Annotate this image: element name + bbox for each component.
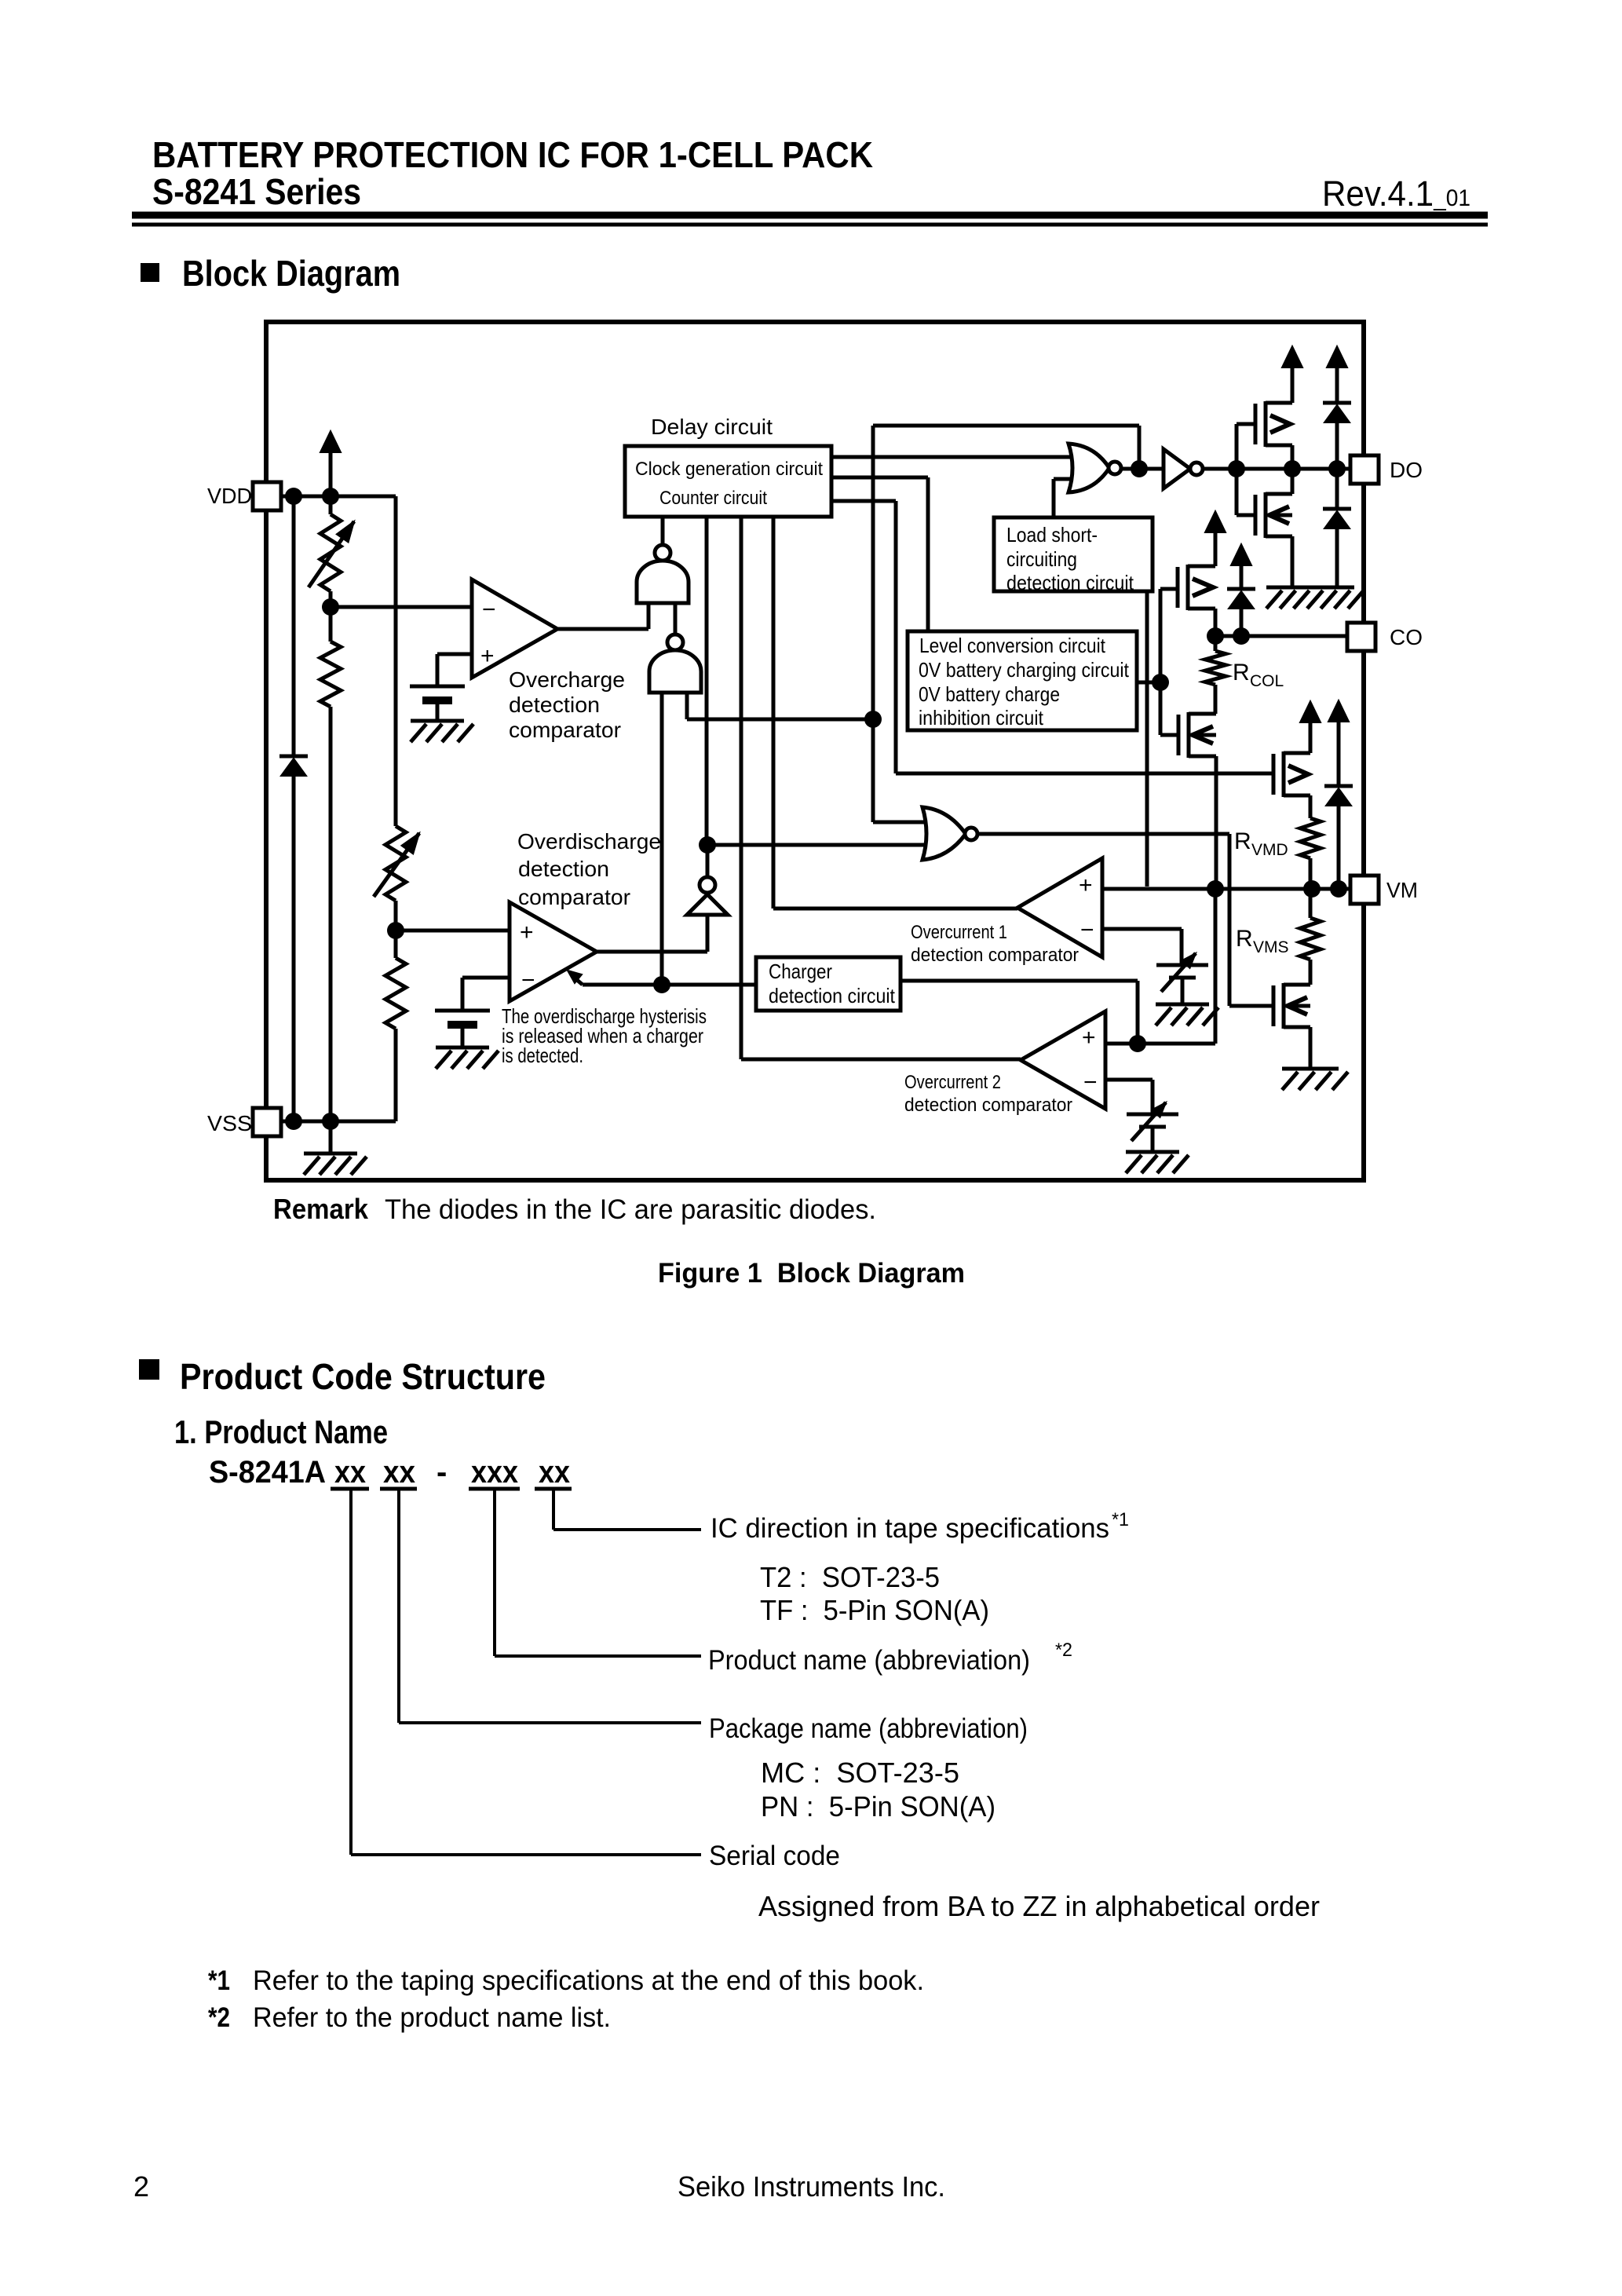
node: VDD junction on diode branch	[285, 488, 302, 505]
node: VSS junction divider branch	[322, 1113, 339, 1130]
svg-text:detection comparator: detection comparator	[911, 945, 1079, 966]
svg-text:−: −	[521, 967, 535, 993]
node: N2/NOR2 feedback junction	[864, 711, 882, 728]
node: OD inverter output junction	[699, 836, 716, 854]
reference cell B1	[410, 686, 465, 721]
svg-text:*2: *2	[1055, 1640, 1072, 1661]
wire: Q6 source to ground	[1309, 1027, 1313, 1069]
wire: gate link to DO transistors	[1237, 424, 1255, 515]
leader line: serial code	[351, 1489, 701, 1855]
diode D3 ground to DO	[1323, 469, 1351, 587]
node: CO node	[1207, 627, 1224, 645]
op-amp U3 overcurrent 1 detection comparator	[1017, 858, 1102, 957]
svg-text:+: +	[1082, 1025, 1096, 1051]
adjustable reference T2	[1127, 1102, 1178, 1152]
svg-text:S-8241 Series: S-8241 Series	[152, 171, 361, 212]
svg-text:xx: xx	[539, 1455, 570, 1490]
svg-text:Assigned from BA to ZZ in alph: Assigned from BA to ZZ in alphabetical o…	[758, 1890, 1320, 1922]
wire: delay output 2 to level conversion	[831, 477, 928, 631]
wire: load short box VM sense	[1145, 591, 1149, 887]
node: divider tap to overcharge comparator	[322, 598, 339, 616]
svg-text:Block Diagram: Block Diagram	[182, 253, 400, 294]
svg-text:VMS: VMS	[1253, 938, 1289, 956]
CO pad	[1347, 623, 1375, 651]
power arrow to VDD above divider	[320, 431, 341, 496]
label: overcharge comparator	[509, 667, 625, 742]
wire: reference to - input	[462, 978, 510, 1011]
label: charger detection	[769, 960, 896, 1007]
wire: NOR2 output to Q6 gate	[975, 834, 1273, 1006]
node: DO diode junction	[1328, 460, 1346, 477]
VDD label	[207, 484, 252, 508]
svg-text:*2: *2	[208, 2002, 230, 2033]
svg-text:R: R	[1234, 828, 1251, 854]
svg-text:VM: VM	[1386, 878, 1418, 902]
label RCOL	[1233, 660, 1284, 690]
svg-text:Product name (abbreviation): Product name (abbreviation)	[708, 1645, 1030, 1676]
svg-text:2: 2	[133, 2170, 149, 2203]
header double rule	[132, 215, 1488, 225]
diode D1 (parasitic, VSS to VDD)	[279, 756, 308, 776]
svg-text:xx: xx	[383, 1455, 415, 1490]
label: counter circuit	[659, 488, 767, 509]
svg-text:0V battery charge: 0V battery charge	[919, 682, 1060, 706]
IC outline border	[266, 322, 1364, 1180]
VM pad	[1350, 876, 1379, 904]
diode D5 VM to VDD with power arrow	[1324, 700, 1353, 889]
wire: counter input from overdischarge inverter	[705, 517, 709, 845]
svg-text:Overcurrent 1: Overcurrent 1	[911, 922, 1007, 943]
inverter V2 (overdischarge path)	[687, 845, 728, 952]
wire: tap to + input	[396, 901, 510, 930]
DO label	[1390, 458, 1423, 482]
product code description texts	[708, 1509, 1320, 1922]
heading: 1. Product Name	[174, 1413, 388, 1450]
svg-text:*1: *1	[208, 1965, 230, 1996]
note: hysteresis text	[502, 1004, 707, 1067]
transistor Q2 DO low-side NMOS	[1255, 492, 1292, 538]
label: overdischarge comparator	[517, 829, 661, 909]
node: DO driver input junction	[1228, 460, 1245, 477]
svg-text:Package name (abbreviation): Package name (abbreviation)	[709, 1713, 1028, 1744]
wire: U3 - input to trimmer	[1102, 929, 1182, 965]
wire: U2 output to inverter	[597, 950, 707, 954]
svg-text:T2 : SOT-23-5: T2 : SOT-23-5	[760, 1561, 940, 1593]
label RVMS	[1236, 926, 1289, 956]
ground under T1	[1156, 1004, 1218, 1026]
node: VM junction at Q4	[1207, 880, 1224, 898]
svg-text:-: -	[437, 1455, 447, 1490]
svg-text:Clock generation circuit: Clock generation circuit	[635, 459, 823, 480]
NOR gate G2	[922, 807, 977, 860]
svg-text:Charger: Charger	[769, 960, 832, 983]
wire: reference to + input	[437, 654, 472, 686]
svg-text:Counter circuit: Counter circuit	[659, 488, 767, 509]
wire: load-short box to NOR1 input	[1054, 479, 1073, 517]
svg-text:MC : SOT-23-5: MC : SOT-23-5	[761, 1757, 959, 1789]
wire: N2 input from NOR feedback	[687, 693, 873, 719]
code underlines	[331, 1487, 572, 1491]
svg-text:Refer to the product name list: Refer to the product name list.	[253, 2002, 611, 2033]
wire: DO gate drive node	[1203, 467, 1350, 471]
wire: Q2 source to ground	[1291, 536, 1295, 587]
NAND gate N2	[649, 634, 701, 693]
svg-text:xx: xx	[334, 1455, 366, 1490]
svg-text:PN : 5-Pin SON(A): PN : 5-Pin SON(A)	[761, 1790, 995, 1823]
ground for DO stage	[1266, 587, 1364, 609]
wire: Q4 source to VM line	[1215, 756, 1218, 889]
ground below VSS rail	[304, 1121, 367, 1175]
power arrow Q3 drain to VDD	[1205, 511, 1226, 566]
svg-text:Serial code: Serial code	[709, 1841, 840, 1871]
leader line: product name	[495, 1489, 701, 1656]
block: load short-circuiting detection circuit	[994, 517, 1153, 591]
node: U4 + junction	[1129, 1035, 1146, 1052]
wire: counter input from overcurrent 1	[773, 517, 1017, 909]
svg-text:Level conversion circuit: Level conversion circuit	[919, 634, 1106, 657]
svg-text:R: R	[1233, 660, 1250, 686]
product code template	[209, 1455, 570, 1490]
transistor Q3 CO high-side PMOS	[1178, 565, 1215, 610]
VDD pad	[253, 482, 281, 510]
svg-text:xxx: xxx	[471, 1455, 518, 1490]
svg-text:inhibition circuit: inhibition circuit	[919, 706, 1044, 729]
svg-text:+: +	[1079, 872, 1093, 898]
node: VDD junction on resistor branch	[322, 488, 339, 505]
svg-text:Load short-: Load short-	[1006, 523, 1098, 547]
svg-text:S-8241A: S-8241A	[209, 1455, 326, 1490]
label: overcurrent 1	[911, 922, 1079, 966]
label: clock generation circuit	[635, 459, 823, 480]
remark text	[273, 1193, 876, 1225]
resistor RVMS	[1300, 889, 1321, 985]
transistor Q4 CO low-side NMOS	[1178, 712, 1216, 758]
wire: Q3 source to CO node	[1214, 609, 1218, 636]
footnotes	[208, 1965, 924, 2033]
svg-text:comparator: comparator	[518, 885, 630, 909]
svg-text:VMD: VMD	[1251, 841, 1288, 859]
svg-text:COL: COL	[1250, 672, 1284, 690]
wire: Q2 drain to DO node	[1291, 469, 1295, 494]
wire: overcharge comparator output	[557, 605, 648, 629]
header title	[152, 134, 873, 212]
svg-text:Refer to the taping specificat: Refer to the taping specifications at th…	[253, 1965, 924, 1996]
section heading: Product Code Structure	[139, 1356, 546, 1397]
node: VSS junction diode branch	[285, 1113, 302, 1130]
svg-text:VSS: VSS	[207, 1111, 252, 1135]
svg-text:Seiko Instruments Inc.: Seiko Instruments Inc.	[678, 2170, 945, 2203]
svg-text:1. Product Name: 1. Product Name	[174, 1413, 388, 1450]
wire: counter input from overcurrent 2	[741, 517, 1021, 1059]
wire: level box output to CO gates	[1137, 589, 1178, 735]
svg-text:IC direction in tape specifica: IC direction in tape specifications	[711, 1513, 1109, 1544]
wire: junction to charger box	[662, 983, 756, 987]
block: level conversion / 0V battery circuits	[908, 631, 1137, 730]
footer	[133, 2170, 945, 2203]
svg-text:detection circuit: detection circuit	[769, 984, 896, 1007]
transistor Q6 NMOS (VM pull-down)	[1273, 983, 1310, 1029]
leader line: IC direction	[553, 1489, 701, 1530]
wire: VDD to second divider	[394, 496, 398, 826]
wire: divider tap to - input	[331, 591, 472, 607]
figure caption	[658, 1258, 965, 1289]
block: Delay circuit (clock generation + counter)	[625, 446, 831, 517]
NAND gate N1 (inverted, output up to delay circuit)	[637, 517, 689, 603]
svg-text:is detected.: is detected.	[502, 1044, 583, 1067]
label: Delay circuit	[651, 415, 773, 439]
label RVMD	[1234, 828, 1288, 859]
ground under B2	[436, 1047, 499, 1069]
inverter V1	[1164, 449, 1203, 488]
resistor RVMD	[1300, 795, 1321, 889]
svg-text:comparator: comparator	[509, 718, 621, 742]
svg-text:DO: DO	[1390, 458, 1423, 482]
svg-text:circuiting: circuiting	[1006, 547, 1077, 571]
diode D2 DO to VDD with power arrow	[1323, 346, 1351, 469]
wire: OD inverter node to NOR2 input	[707, 843, 926, 847]
svg-text:+: +	[480, 643, 495, 669]
diode D4 CO to VDD with power arrow	[1227, 544, 1255, 636]
svg-text:detection: detection	[518, 857, 609, 881]
svg-text:−: −	[482, 597, 496, 623]
section heading: Block Diagram	[141, 253, 400, 294]
wire: NOR1 output	[1121, 467, 1164, 471]
wire: VDD rail horizontal	[281, 495, 396, 499]
adjustable reference T1	[1156, 953, 1208, 1004]
resistor R4 (overdischarge sense divider bottom)	[331, 930, 406, 1121]
node: CO diode junction	[1233, 627, 1250, 645]
svg-text:Overcharge: Overcharge	[509, 667, 625, 692]
svg-text:The diodes in the IC are paras: The diodes in the IC are parasitic diode…	[385, 1194, 876, 1225]
variable resistor R1 (overcharge sense divider top)	[309, 496, 354, 591]
power arrow Q1 drain to VDD	[1282, 346, 1302, 403]
svg-text:+: +	[520, 919, 534, 945]
node: CO gate junction	[1152, 674, 1169, 691]
ground under B1	[411, 721, 473, 742]
wire: delay output 3 to CO high-side gate	[831, 501, 1273, 773]
VSS label	[207, 1111, 252, 1135]
revision label	[1322, 174, 1470, 214]
VM label	[1386, 878, 1418, 902]
svg-text:VDD: VDD	[207, 484, 252, 508]
op-amp U1 overcharge detection comparator	[472, 579, 557, 678]
node: VM junction at RVMD	[1303, 880, 1321, 898]
wire: N1 second input from N2 output	[674, 603, 678, 634]
node: divider tap to overdischarge comparator	[387, 922, 404, 939]
wire: N2 input from charger-detect line	[660, 693, 664, 985]
svg-text:Overdischarge: Overdischarge	[517, 829, 661, 854]
ground under T2	[1126, 1152, 1189, 1173]
hysteresis release arrow	[568, 971, 662, 985]
svg-text:−: −	[1083, 1069, 1098, 1095]
wire: charger box output to overcurrent2 +	[901, 981, 1138, 1044]
wire: Q1 source to DO node	[1291, 445, 1295, 469]
wire: U4 + input to VM	[1105, 889, 1215, 1044]
wire: CO node to pad	[1215, 634, 1350, 638]
op-amp U4 overcurrent 2 detection comparator	[1021, 1011, 1105, 1109]
DO pad	[1350, 455, 1379, 484]
node: NOR1 output junction	[1131, 460, 1148, 477]
reference cell B2	[435, 1011, 490, 1047]
wire: U4 - input to trimmer	[1105, 1080, 1153, 1114]
CO label	[1390, 625, 1423, 649]
wire: VSS rail	[281, 1120, 331, 1124]
svg-text:−: −	[1080, 917, 1094, 943]
leader line: package name	[399, 1489, 701, 1723]
label: level conversion box	[919, 634, 1130, 729]
resistor RCOL	[1205, 636, 1226, 714]
resistor R2 (overcharge sense divider bottom)	[320, 607, 341, 1121]
variable resistor R3 (overdischarge sense divider top)	[374, 826, 419, 901]
svg-text:detection: detection	[509, 693, 600, 717]
svg-text:Delay circuit: Delay circuit	[651, 415, 773, 439]
svg-text:Overcurrent 2: Overcurrent 2	[904, 1072, 1001, 1093]
svg-text:0V battery charging circuit: 0V battery charging circuit	[919, 658, 1130, 682]
transistor Q5 PMOS driven by delay output 3	[1273, 751, 1310, 797]
svg-text:R: R	[1236, 926, 1253, 952]
ground under Q6	[1282, 1069, 1348, 1090]
wire: NOR1 feedback to counter/N2	[873, 426, 1139, 822]
power arrow Q5 drain to VDD	[1300, 701, 1321, 753]
node: DO node at Q1/Q2	[1284, 460, 1301, 477]
svg-text:Product Code Structure: Product Code Structure	[180, 1356, 546, 1397]
svg-text:detection circuit: detection circuit	[1006, 571, 1134, 594]
svg-text:BATTERY PROTECTION IC FOR 1-CE: BATTERY PROTECTION IC FOR 1-CELL PACK	[152, 134, 873, 175]
node: VM junction at D5	[1330, 880, 1347, 898]
wire: VM line	[1102, 887, 1350, 891]
svg-text:*1: *1	[1112, 1509, 1129, 1530]
label: load short box	[1006, 523, 1134, 594]
svg-text:Figure 1 Block Diagram: Figure 1 Block Diagram	[658, 1258, 965, 1289]
block: charger detection circuit	[756, 957, 901, 1011]
node: charger detect line junction	[653, 976, 670, 993]
wire: diode branch vertical	[292, 496, 296, 1121]
VSS pad	[253, 1108, 281, 1136]
svg-text:CO: CO	[1390, 625, 1423, 649]
op-amp U2 overdischarge detection comparator	[510, 902, 597, 1001]
svg-text:detection comparator: detection comparator	[904, 1095, 1072, 1116]
svg-text:TF : 5-Pin SON(A): TF : 5-Pin SON(A)	[760, 1594, 989, 1626]
wire: delay output 1 to NOR1	[831, 455, 1073, 459]
label: overcurrent 2	[904, 1072, 1072, 1116]
svg-text:Remark: Remark	[273, 1193, 369, 1225]
NOR gate G1	[1069, 444, 1121, 492]
transistor Q1 DO high-side PMOS	[1255, 401, 1292, 447]
